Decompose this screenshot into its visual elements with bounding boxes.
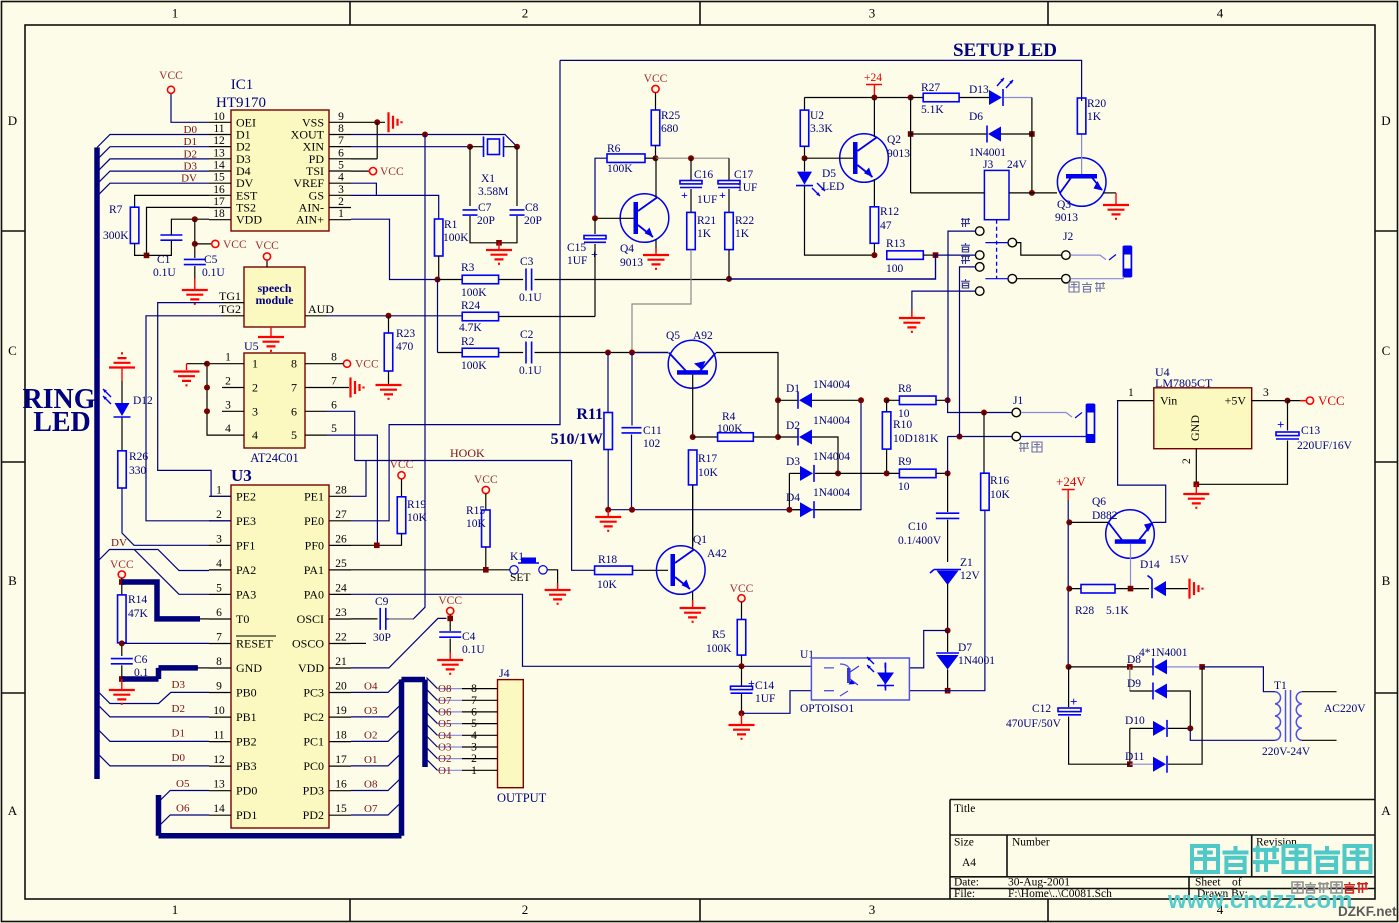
wire DV (IC1 row) — [97, 183, 209, 196]
ground (R23) — [376, 385, 402, 399]
svg-text:+: + — [719, 188, 726, 202]
svg-text:IC1: IC1 — [231, 77, 254, 93]
VCC (R25) — [652, 85, 659, 92]
wire Q4 collector — [655, 158, 657, 197]
svg-text:1N4004: 1N4004 — [813, 451, 850, 463]
svg-text:PB1: PB1 — [236, 710, 257, 724]
svg-text:9013: 9013 — [1055, 212, 1078, 224]
svg-text:3.58M: 3.58M — [478, 186, 508, 198]
wire O5 (PD0) — [159, 791, 210, 803]
resistor R14 47K — [118, 595, 127, 643]
wire D0 (IC1 row) — [97, 135, 209, 148]
svg-text:R4: R4 — [722, 411, 736, 423]
capacitor C12 470UF/50V — [1068, 667, 1070, 707]
svg-text:O2: O2 — [438, 753, 451, 765]
svg-text:U1: U1 — [800, 649, 814, 661]
svg-text:330: 330 — [129, 465, 147, 477]
node VSS/PD ground — [351, 121, 385, 123]
speech module GND pin — [270, 327, 272, 336]
wire Q6 emitter to Vin — [1118, 401, 1166, 523]
VCC (R14) — [118, 571, 125, 578]
bus D0-DV (left vertical) — [94, 148, 100, 780]
svg-text:VCC: VCC — [255, 240, 279, 252]
wire TS2 — [147, 207, 210, 255]
ground (U5) — [186, 364, 188, 370]
U4 LM7805CT regulator — [1154, 388, 1252, 449]
svg-text:5.1K: 5.1K — [1106, 605, 1129, 617]
svg-text:1UF: 1UF — [567, 255, 587, 267]
ground (R11/C11) — [607, 510, 609, 516]
svg-text:R17: R17 — [698, 453, 717, 465]
svg-text:D14: D14 — [1140, 559, 1160, 571]
svg-text:9013: 9013 — [887, 148, 910, 160]
wire SETUP LED net (PE0) — [351, 60, 560, 520]
diode D3 1N4004 — [835, 470, 841, 476]
wire OSCO stub — [351, 642, 366, 644]
svg-text:R9: R9 — [898, 456, 912, 468]
speech module pin AUD — [305, 315, 327, 317]
svg-text:VCC: VCC — [644, 73, 668, 85]
text kai/he contact labels — [961, 218, 970, 227]
transistor Q4 9013 — [620, 194, 669, 243]
svg-text:3: 3 — [869, 902, 876, 917]
transistor Q1 A42 — [657, 546, 706, 595]
svg-text:1: 1 — [172, 6, 179, 21]
svg-text:VCC: VCC — [110, 559, 134, 571]
capacitor C10 0.1/400V — [936, 513, 959, 518]
svg-text:R28: R28 — [1075, 605, 1094, 617]
resistor R4 100K — [693, 436, 718, 438]
svg-text:C11: C11 — [643, 425, 662, 437]
svg-text:+24: +24 — [864, 72, 882, 84]
svg-text:25: 25 — [335, 558, 347, 570]
J4 pin 7 (O7) — [437, 699, 462, 701]
svg-text:13: 13 — [213, 779, 225, 791]
svg-text:2: 2 — [522, 902, 529, 917]
wire Q3 emitter ground — [1103, 192, 1116, 194]
svg-text:PA1: PA1 — [304, 563, 324, 577]
wire +24 rail — [805, 97, 911, 99]
svg-text:+: + — [681, 188, 688, 202]
wire HOOK to PE1 — [351, 461, 366, 497]
svg-text:1N4004: 1N4004 — [813, 415, 850, 427]
wire C14 to opto pin — [742, 691, 812, 714]
svg-text:OPTOISO1: OPTOISO1 — [800, 703, 854, 715]
svg-text:Title: Title — [954, 803, 975, 815]
svg-text:R3: R3 — [461, 262, 475, 274]
resistor R6 100K — [607, 154, 645, 163]
resistor R10 10D181K — [886, 400, 888, 412]
wire D2 (U3 row) — [97, 704, 209, 717]
svg-text:C: C — [1382, 343, 1391, 358]
svg-text:10: 10 — [213, 111, 225, 123]
wire arm2 to J2 — [1017, 278, 1062, 280]
svg-text:R15: R15 — [466, 505, 485, 517]
svg-text:13: 13 — [213, 147, 225, 159]
wire O1 (U3 right) — [351, 753, 402, 766]
svg-text:D2: D2 — [786, 420, 800, 432]
wire OSCI to XOUT line — [389, 618, 414, 620]
svg-text:100K: 100K — [706, 643, 732, 655]
svg-text:C7: C7 — [478, 202, 492, 214]
svg-text:1N4001: 1N4001 — [958, 655, 995, 667]
svg-text:D9: D9 — [1127, 678, 1141, 690]
diode D8 — [1069, 666, 1153, 668]
svg-text:21: 21 — [335, 656, 347, 668]
svg-text:J2: J2 — [1063, 231, 1073, 243]
U3 pin 24 PA0 — [329, 593, 351, 595]
svg-text:A4: A4 — [962, 857, 976, 869]
svg-text:LED: LED — [33, 407, 91, 438]
svg-text:O1: O1 — [438, 765, 451, 777]
svg-text:0.1U: 0.1U — [153, 267, 176, 279]
U3 pin 8 GND — [209, 667, 231, 669]
wire Q2 base — [805, 157, 854, 159]
svg-text:C1: C1 — [157, 254, 171, 266]
LED D5 — [804, 158, 806, 171]
U3 pin 23 OSCI — [329, 618, 351, 620]
ground (above D12, flipped) — [109, 353, 135, 367]
connector J4 OUTPUT — [498, 680, 524, 788]
IC1 pin 9 VSS — [329, 121, 351, 123]
transistor Q5 A92 — [668, 340, 716, 388]
svg-text:3: 3 — [216, 533, 222, 545]
resistor R18 10K — [595, 566, 633, 575]
svg-text:7: 7 — [331, 376, 337, 388]
svg-text:1N4004: 1N4004 — [813, 487, 850, 499]
wire bus entry O2 — [427, 748, 438, 759]
svg-text:10: 10 — [213, 705, 225, 717]
wire Q2 emitter to R12 — [873, 179, 875, 207]
svg-text:0.1U: 0.1U — [202, 267, 225, 279]
svg-text:3.3K: 3.3K — [810, 123, 833, 135]
IC1 pin 6 PD — [329, 158, 351, 160]
resistor R26 330 — [121, 418, 123, 451]
svg-text:C17: C17 — [734, 169, 753, 181]
resistor R9 10 — [884, 470, 890, 476]
svg-text:11: 11 — [213, 730, 224, 742]
svg-text:47: 47 — [880, 220, 892, 232]
svg-text:PF1: PF1 — [236, 538, 255, 552]
wire XOUT — [351, 135, 517, 147]
svg-text:T0: T0 — [236, 612, 249, 626]
resistor R3 100K — [438, 279, 463, 281]
wire U5 pin6 SCL — [327, 411, 355, 460]
U5 AT24C01 EEPROM — [244, 353, 305, 448]
svg-text:2: 2 — [338, 196, 344, 208]
wire contact4 to ground — [912, 291, 976, 316]
title block — [950, 800, 1375, 889]
svg-text:3: 3 — [338, 184, 344, 196]
svg-text:R7: R7 — [109, 204, 123, 216]
zener D14 15V — [1148, 576, 1153, 599]
svg-text:R22: R22 — [735, 215, 754, 227]
IC1 pin 17 TS2 — [209, 207, 231, 209]
svg-text:+: + — [1277, 417, 1284, 432]
wire Q6 collector — [1069, 521, 1108, 523]
svg-text:27: 27 — [335, 509, 347, 521]
svg-text:100K: 100K — [461, 287, 487, 299]
svg-text:5: 5 — [471, 718, 477, 730]
svg-text:D11: D11 — [1125, 751, 1145, 763]
wire contact1 to R8 row — [947, 352, 949, 400]
U3 pin 1 PE2 — [209, 495, 231, 497]
svg-text:VCC: VCC — [730, 583, 754, 595]
svg-text:+5V: +5V — [1225, 394, 1247, 408]
wire VDD pin21 — [351, 618, 447, 668]
ground (C4) — [449, 652, 451, 659]
svg-text:2: 2 — [471, 753, 477, 765]
svg-text:J3: J3 — [983, 159, 993, 171]
diode D11 — [1129, 728, 1131, 764]
IC1 pin 16 EST — [209, 194, 231, 196]
node R1/R3 junction — [435, 277, 441, 283]
svg-text:9013: 9013 — [620, 257, 643, 269]
svg-text:VCC: VCC — [223, 239, 247, 251]
svg-text:R12: R12 — [880, 206, 899, 218]
wire J3 coil — [911, 192, 985, 194]
J4 pin 3 (O3) — [437, 746, 462, 748]
svg-text:4: 4 — [471, 730, 477, 742]
diode D7 1N4001 — [947, 631, 949, 653]
svg-text:C10: C10 — [908, 521, 927, 533]
svg-text:O5: O5 — [438, 718, 452, 730]
svg-text:SET: SET — [510, 572, 530, 584]
U3 pin 25 PA1 — [329, 569, 351, 571]
wire contact2 — [936, 254, 976, 256]
svg-text:AIN+: AIN+ — [296, 213, 324, 227]
svg-text:3: 3 — [1263, 387, 1269, 399]
wire R13/R22 row — [729, 255, 936, 279]
svg-text:2: 2 — [252, 381, 258, 395]
wire D1 (IC1 row) — [97, 147, 209, 160]
wire Q2 collector — [873, 98, 875, 138]
svg-text:1: 1 — [338, 208, 344, 220]
IC1 pin 18 VDD — [209, 219, 231, 221]
svg-text:C12: C12 — [1032, 703, 1051, 715]
U3 microcontroller — [231, 485, 329, 828]
svg-text:AT24C01: AT24C01 — [250, 451, 299, 465]
svg-text:20P: 20P — [524, 215, 542, 227]
U3 pin 2 PE3 — [209, 520, 231, 522]
wire VREF-GS — [351, 183, 376, 195]
svg-text:10: 10 — [898, 481, 910, 493]
svg-text:1K: 1K — [1087, 111, 1102, 123]
wire C2 row to Q5 — [632, 352, 668, 354]
svg-text:1UF: 1UF — [697, 194, 717, 206]
svg-text:4: 4 — [1217, 6, 1224, 21]
svg-text:VDD: VDD — [298, 661, 324, 675]
svg-text:PB3: PB3 — [236, 759, 257, 773]
ground (C5) — [194, 278, 196, 289]
svg-text:510/1W: 510/1W — [551, 431, 603, 448]
ground (K1) — [557, 583, 559, 589]
svg-text:17: 17 — [213, 196, 225, 208]
capacitor C17 1UF — [728, 158, 730, 180]
svg-text:5.1K: 5.1K — [921, 104, 944, 116]
svg-text:PC1: PC1 — [303, 735, 324, 749]
svg-text:100K: 100K — [607, 163, 633, 175]
svg-text:28: 28 — [335, 484, 347, 496]
svg-text:24V: 24V — [1007, 159, 1028, 171]
IC1 pin 12 D2 — [209, 146, 231, 148]
svg-text:R23: R23 — [396, 328, 415, 340]
svg-text:10K: 10K — [466, 518, 487, 530]
U5 pin 7 — [305, 387, 327, 389]
svg-text:VDD: VDD — [236, 213, 262, 227]
wire D0 (U3 row) — [97, 753, 209, 766]
svg-text:10K: 10K — [597, 579, 618, 591]
U3 pin 13 PD0 — [209, 790, 231, 792]
resistor U2 3.3K — [804, 98, 806, 111]
svg-text:R13: R13 — [886, 238, 905, 250]
svg-text:O6: O6 — [438, 706, 452, 718]
wire contact3 — [960, 267, 976, 437]
svg-text:6: 6 — [331, 399, 337, 411]
svg-text:12V: 12V — [960, 570, 981, 582]
U3 pin 27 PE0 — [329, 520, 351, 522]
wire AUD to R24 — [437, 280, 439, 353]
resistor R23 470 — [388, 316, 390, 333]
U3 pin 9 PB0 — [209, 692, 231, 694]
svg-text:9: 9 — [216, 681, 222, 693]
svg-text:17: 17 — [335, 754, 347, 766]
svg-text:D12: D12 — [133, 395, 153, 407]
U3 pin 12 PB3 — [209, 765, 231, 767]
wire Q1 emitter to ground — [692, 592, 694, 606]
wire bus entry O5 — [427, 713, 438, 724]
svg-text:R14: R14 — [128, 594, 147, 606]
svg-text:10D181K: 10D181K — [893, 433, 939, 445]
wire Q4 emitter/ground — [655, 239, 657, 252]
svg-text:18: 18 — [213, 208, 225, 220]
svg-text:470: 470 — [396, 341, 414, 353]
J4 pin 4 (O4) — [437, 734, 462, 736]
svg-text:0.1U: 0.1U — [462, 644, 485, 656]
svg-text:module: module — [255, 293, 294, 307]
svg-text:PE2: PE2 — [236, 489, 256, 503]
IC1 pin 11 D1 — [209, 134, 231, 136]
svg-text:20: 20 — [335, 681, 347, 693]
svg-text:PC3: PC3 — [303, 686, 324, 700]
svg-text:VCC: VCC — [380, 166, 404, 178]
capacitor C8 20P — [516, 147, 518, 206]
switch arms — [985, 243, 1008, 279]
ground (D14 sideways) — [1190, 579, 1203, 599]
U4 pin 2 GND — [1195, 449, 1197, 485]
svg-text:0.1U: 0.1U — [519, 365, 542, 377]
svg-text:A: A — [1381, 803, 1391, 818]
svg-text:C14: C14 — [755, 680, 774, 692]
wire U5 pins 1-4 ground — [207, 364, 222, 435]
svg-text:PD2: PD2 — [303, 808, 324, 822]
svg-text:3: 3 — [225, 399, 231, 411]
capacitor C4 0.1U — [439, 632, 461, 637]
resistor R11 510/1W — [607, 353, 609, 413]
wire bus entry O4 — [427, 724, 438, 735]
svg-text:O1: O1 — [364, 754, 377, 766]
capacitor C11 102 — [631, 353, 633, 426]
watermark big cyan hanzi — [1192, 846, 1218, 872]
wire R26 to PF1 — [122, 488, 209, 545]
svg-text:U5: U5 — [244, 339, 259, 353]
wire O8 (U3 right) — [351, 778, 402, 791]
ground (U5 pin7 sideways) — [327, 387, 349, 389]
U3 pin 28 PE1 — [329, 495, 351, 497]
svg-text:D0: D0 — [172, 752, 186, 764]
svg-text:0.1/400V: 0.1/400V — [898, 535, 942, 547]
capacitor C9 30P — [351, 618, 378, 620]
ground (Q1) — [692, 600, 694, 607]
svg-text:D: D — [8, 113, 17, 128]
svg-text:3: 3 — [869, 6, 876, 21]
resistor R22 1K — [728, 189, 730, 212]
svg-text:C15: C15 — [567, 242, 586, 254]
svg-text:18: 18 — [335, 730, 347, 742]
svg-text:D3: D3 — [172, 679, 186, 691]
U5 pin 1 — [222, 363, 244, 365]
svg-text:26: 26 — [335, 533, 347, 545]
svg-text:C13: C13 — [1301, 425, 1320, 437]
svg-text:30P: 30P — [373, 632, 391, 644]
wire Q3 base from R20 — [1081, 134, 1083, 174]
svg-text:Date:: Date: — [954, 877, 979, 889]
svg-text:VCC: VCC — [355, 359, 379, 371]
U3 pin 16 PD3 — [329, 790, 351, 792]
svg-text:47K: 47K — [128, 608, 149, 620]
svg-text:D3: D3 — [786, 456, 800, 468]
svg-text:8: 8 — [331, 352, 337, 364]
svg-text:O7: O7 — [438, 695, 452, 707]
svg-text:VCC: VCC — [390, 459, 414, 471]
svg-text:PF0: PF0 — [305, 538, 324, 552]
resistor R8 10 — [858, 397, 864, 403]
wire Q5 base down — [692, 375, 694, 437]
VCC (TSI) — [351, 170, 370, 172]
svg-text:D6: D6 — [969, 111, 983, 123]
svg-text:DV: DV — [181, 173, 197, 185]
capacitor C5 0.1U — [194, 219, 196, 258]
svg-text:1N4001: 1N4001 — [969, 147, 1006, 159]
IC1 pin 15 DV — [209, 182, 231, 184]
U3 pin 5 PA3 — [209, 593, 231, 595]
svg-text:C2: C2 — [520, 329, 534, 341]
svg-text:PB2: PB2 — [236, 735, 257, 749]
svg-text:PE0: PE0 — [304, 514, 324, 528]
wire PA0 to opto — [351, 594, 811, 666]
svg-text:2: 2 — [1181, 458, 1193, 464]
transistor Q2 9013 — [840, 134, 889, 183]
svg-text:1: 1 — [225, 352, 231, 364]
svg-text:OSCI: OSCI — [297, 612, 324, 626]
svg-text:6: 6 — [216, 607, 222, 619]
text waixian (outside line) — [1019, 442, 1029, 452]
wire bus entry O6 — [427, 701, 438, 712]
U3 pin 26 PF0 — [329, 544, 351, 546]
svg-text:10K: 10K — [990, 489, 1011, 501]
svg-text:TG1: TG1 — [219, 289, 241, 303]
svg-text:D1: D1 — [184, 136, 197, 148]
resistor R28 5.1K — [1081, 585, 1115, 594]
wire O3 (U3 right) — [351, 704, 402, 717]
svg-text:PD0: PD0 — [236, 784, 257, 798]
svg-text:12: 12 — [213, 754, 225, 766]
svg-text:C16: C16 — [694, 169, 713, 181]
svg-text:C8: C8 — [525, 202, 539, 214]
svg-text:GND: GND — [236, 661, 262, 675]
svg-text:0.1U: 0.1U — [519, 292, 542, 304]
svg-text:4: 4 — [225, 423, 231, 435]
